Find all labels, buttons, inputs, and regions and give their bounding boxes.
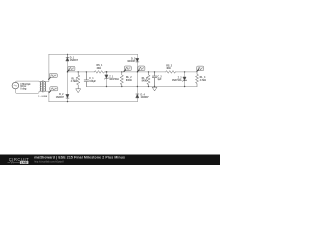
node D1 anode / mid rail junction — [67, 71, 68, 72]
wire secondary bottom stub down to bottom rail — [44, 91, 49, 101]
svg-text:http://circuitlab.com/c6pejz8: http://circuitlab.com/c6pejz8 — [34, 160, 64, 163]
capacitor C_1 — [84, 72, 88, 87]
svg-text:4.7kΩ: 4.7kΩ — [71, 80, 77, 83]
transformer T1 right coil — [44, 82, 45, 92]
ground below RL_1 — [76, 89, 81, 93]
probe VP3 — [67, 66, 75, 72]
wire D1 anode down through mid rail to D2 — [67, 61, 69, 94]
node D3 / mid rail junction — [137, 71, 138, 72]
resistor RL_2 — [120, 72, 123, 87]
ground below common rail — [152, 87, 157, 92]
watermark bar — [0, 155, 220, 166]
transformer T1 core — [42, 81, 45, 92]
node Z_2 / mid rail junction — [184, 71, 185, 72]
resistor RS_2 — [166, 71, 176, 74]
resistor RL_3 — [147, 72, 150, 87]
svg-text:mattheward | ESE 215 Final Mil: mattheward | ESE 215 Final Milestone 2 P… — [34, 155, 125, 159]
svg-text:1N4007: 1N4007 — [56, 96, 65, 99]
wire mid rail middle segment — [105, 71, 166, 73]
node D2 cathode / bottom rail junction — [67, 101, 68, 102]
svg-text:0 deg: 0 deg — [20, 87, 27, 90]
probe VP5 — [137, 66, 145, 72]
zener Z_1 — [106, 72, 108, 75]
wire mid rail right segment — [175, 71, 197, 73]
svg-text:840Ω: 840Ω — [126, 79, 132, 82]
wire primary loop bottom — [15, 89, 41, 94]
node D4 / common rail junction — [137, 86, 138, 87]
diode D1 — [66, 54, 69, 57]
node Z_1 / mid rail junction — [106, 71, 108, 73]
node D1 cathode / top rail junction — [67, 54, 68, 55]
voltage source V1 — [12, 82, 19, 89]
node RL_2 / mid rail junction — [121, 71, 122, 72]
zener Z_2 — [184, 72, 186, 77]
svg-text:1N4744A: 1N4744A — [172, 79, 182, 82]
svg-text:1µF: 1µF — [157, 78, 162, 81]
wire bottom rail — [49, 101, 137, 103]
node RL_1 / mid rail junction — [78, 71, 79, 72]
svg-text:LAB: LAB — [21, 160, 27, 164]
svg-text:100µF: 100µF — [89, 80, 96, 83]
svg-text:1N4007: 1N4007 — [141, 96, 150, 99]
transformer T1 left coil — [40, 82, 41, 92]
wire primary loop top — [15, 81, 41, 82]
node Z_1 / common rail junction — [106, 86, 107, 87]
node RL_3 / common rail junction — [148, 86, 149, 87]
node C_2 ground junction — [154, 86, 155, 87]
probe VP1 — [48, 74, 57, 81]
node RL_3 / mid rail junction — [148, 71, 149, 72]
capacitor C_2 — [152, 72, 156, 87]
resistor RL_4 — [196, 72, 199, 87]
node RL_2 / common rail junction — [121, 86, 122, 87]
wire D3 down to mid rail — [136, 62, 138, 72]
resistor RS_1 — [95, 71, 105, 74]
svg-text:46Ω: 46Ω — [97, 67, 102, 70]
svg-text:1N4744A: 1N4744A — [109, 78, 119, 81]
resistor RL_1 — [77, 72, 80, 89]
svg-text:840Ω: 840Ω — [142, 80, 148, 83]
node Z_2 / common rail junction — [184, 86, 185, 87]
voltage probes — [48, 66, 204, 93]
component labels — [20, 56, 206, 99]
probe VP6 — [196, 66, 204, 72]
wire common rail — [86, 86, 197, 88]
diode D2 — [66, 94, 69, 97]
diode D3 — [136, 54, 138, 58]
wire secondary top stub up to top rail — [44, 54, 49, 81]
CircuitLab logo — [8, 157, 30, 165]
svg-text:1N4007: 1N4007 — [70, 59, 79, 62]
node C_1 / mid rail junction — [86, 71, 87, 72]
probe VP2 — [48, 87, 58, 94]
svg-text:1N4007: 1N4007 — [127, 60, 136, 63]
svg-text:1 : 0.058: 1 : 0.058 — [38, 96, 47, 98]
svg-text:46Ω: 46Ω — [166, 67, 171, 70]
node C_2 / mid rail junction — [154, 71, 155, 72]
probe VP4 — [123, 66, 131, 72]
diode D4 — [136, 87, 138, 94]
svg-text:4.7kΩ: 4.7kΩ — [200, 79, 206, 82]
wire mid rail down to common rail at D column — [136, 72, 138, 87]
wire mid rail left segment — [68, 71, 95, 73]
wire top rail — [49, 53, 137, 55]
